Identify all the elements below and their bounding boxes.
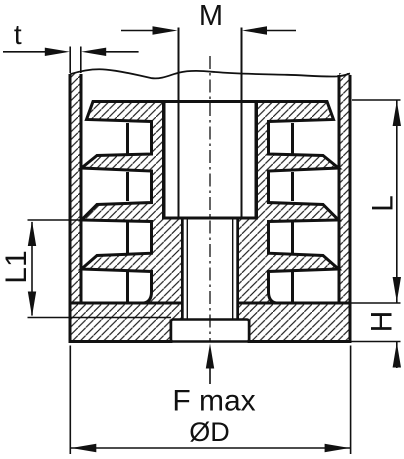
svg-text:L: L	[367, 195, 400, 212]
svg-text:L1: L1	[0, 250, 33, 283]
svg-text:M: M	[199, 0, 223, 32]
svg-text:F max: F max	[172, 385, 255, 418]
svg-text:H: H	[366, 311, 399, 333]
svg-text:t: t	[14, 19, 22, 50]
svg-text:ØD: ØD	[189, 417, 230, 447]
